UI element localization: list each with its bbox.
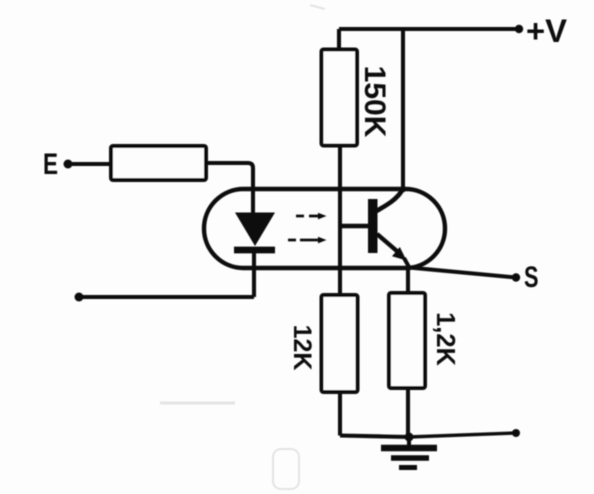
- wire E terminal to resistor: [68, 162, 111, 166]
- resistor RE body: [111, 146, 206, 180]
- wire 150K top lead: [337, 29, 341, 51]
- wire 1.2K bottom lead: [406, 388, 410, 437]
- wire ground junction to right terminal: [409, 433, 516, 437]
- node E terminal dot: [64, 160, 73, 169]
- wire collector riser to +V: [401, 29, 405, 192]
- transistor Q1 collector lead: [377, 190, 403, 212]
- svg-text:S: S: [524, 261, 539, 294]
- wire base node vertical (150K bottom through opto to 12K): [338, 145, 342, 295]
- node right terminal dot: [512, 429, 520, 437]
- ground symbol: [381, 437, 437, 468]
- node S terminal dot: [512, 273, 520, 281]
- node left terminal dot: [75, 293, 84, 302]
- light arrow upper: [296, 213, 327, 220]
- resistor 12K body: [322, 295, 358, 392]
- wire resistor to LED anode: [206, 163, 253, 214]
- node ground junction dot: [405, 433, 414, 442]
- svg-text:12K: 12K: [288, 325, 316, 371]
- svg-text:+V: +V: [526, 13, 568, 49]
- svg-text:150K: 150K: [358, 66, 391, 138]
- node +V terminal dot: [515, 25, 523, 33]
- light arrow lower: [288, 237, 327, 244]
- svg-text:E: E: [43, 148, 58, 181]
- wire emitter to 1.2K resistor: [406, 267, 410, 293]
- wire +V rail: [339, 27, 519, 31]
- optocoupler body outline: [204, 189, 445, 268]
- wire LED cathode lead: [252, 252, 256, 297]
- resistor 150K body: [322, 50, 358, 146]
- resistor 1.2K body: [389, 293, 425, 388]
- LED D1: [234, 213, 275, 251]
- transistor Q1 base bar: [368, 199, 378, 253]
- svg-text:1,2K: 1,2K: [431, 312, 459, 366]
- faint scan ghost marks: [160, 5, 325, 489]
- wire ground bus: [340, 436, 409, 438]
- wire cathode return to left terminal: [79, 295, 254, 299]
- transistor Q1 base lead: [341, 224, 369, 229]
- wire 12K bottom lead: [338, 392, 342, 436]
- wire S output: [409, 268, 516, 278]
- transistor Q1 emitter lead with arrow: [377, 234, 409, 267]
